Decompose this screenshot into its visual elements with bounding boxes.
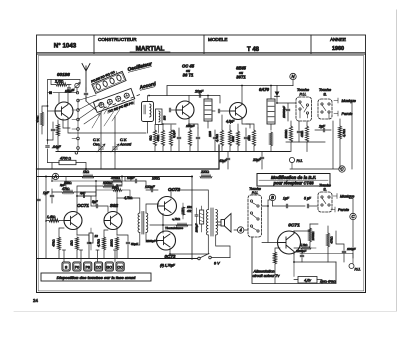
wire x96 riser	[95, 181, 97, 206]
cap 5uF frame rail	[37, 199, 41, 200]
mod bottom bus2	[293, 262, 295, 277]
svg-text:47kΩ: 47kΩ	[330, 236, 334, 244]
svg-text:10µF: 10µF	[127, 176, 136, 180]
bus terminal circle	[75, 152, 78, 155]
input terminal square	[49, 91, 52, 94]
input terminal circle	[76, 92, 78, 94]
svg-text:4,7kΩ: 4,7kΩ	[342, 128, 346, 137]
resistor bank2 r3	[246, 124, 256, 152]
cap bank1 c2	[196, 128, 200, 152]
cap bank2 c0	[213, 130, 217, 152]
detector resistor 47k	[305, 121, 308, 152]
svg-text:OC71: OC71	[77, 203, 89, 208]
cap 40uF bottom	[219, 152, 230, 170]
svg-text:P8: P8	[85, 266, 89, 270]
boxed resistor near transformer	[196, 206, 204, 232]
svg-text:40kΩ: 40kΩ	[156, 135, 160, 142]
svg-text:100000pF: 100000pF	[282, 106, 286, 118]
svg-text:4,7kΩ: 4,7kΩ	[97, 238, 101, 247]
detector bus	[286, 141, 325, 143]
center rail	[191, 177, 193, 260]
svg-text:100kΩ: 100kΩ	[311, 231, 315, 241]
modification title box	[257, 174, 330, 187]
driver transformer secondary	[146, 213, 148, 233]
switch Touche S (bottom)	[318, 192, 332, 212]
wire to node C	[290, 103, 352, 170]
svg-text:100µF: 100µF	[347, 247, 356, 251]
label Accord	[138, 81, 157, 91]
page edge shadow bottom	[14, 311, 396, 313]
svg-text:A: A	[53, 174, 57, 179]
svg-text:100µF: 100µF	[145, 185, 156, 189]
cap 50uF S92 bypass	[117, 235, 138, 259]
wire T1 base	[48, 110, 56, 112]
S92 collector wires	[117, 177, 122, 214]
input trimmer	[74, 83, 80, 93]
cap 1uF mod	[273, 197, 306, 208]
svg-text:8E45: 8E45	[236, 66, 246, 71]
cap on T3 base	[218, 109, 229, 113]
bottom bus mod	[252, 237, 336, 284]
caption box touches	[41, 273, 151, 281]
cap 10uF coupling	[125, 176, 146, 186]
svg-text:10kΩ: 10kΩ	[112, 186, 119, 190]
supply bus top	[167, 86, 293, 96]
resistor 220 S92 emitter	[110, 237, 119, 259]
driver transformer wires	[117, 198, 159, 245]
label Parole top	[334, 111, 352, 116]
driver transformer primary	[138, 213, 140, 233]
diode OA70 vertical	[275, 86, 280, 104]
OC71 emitter wire	[76, 228, 78, 236]
cap left of transformer	[195, 208, 198, 224]
left column junction dots	[47, 105, 49, 141]
detector cap 2200pF	[297, 121, 301, 142]
thermistance resistor	[165, 217, 188, 230]
wire T3 collector	[241, 86, 243, 105]
resistor 14k base OC71	[46, 215, 64, 222]
svg-text:+,7kΩ: +,7kΩ	[172, 217, 181, 221]
svg-text:P.U.: P.U.	[252, 191, 259, 195]
transistor OC72 lower	[157, 231, 176, 250]
cap on T2 base	[169, 108, 176, 112]
resistor bank2 r2	[228, 125, 231, 152]
OC71 collector wires	[77, 186, 96, 214]
output transformer secondary	[216, 210, 218, 236]
OC71 mod base wire	[262, 206, 278, 243]
svg-text:4,5v: 4,5v	[304, 279, 311, 283]
svg-text:1kΩ: 1kΩ	[83, 170, 90, 174]
IF transformer 1	[142, 96, 154, 134]
resistor bank1 r1	[156, 124, 176, 152]
page edge shadow right	[396, 10, 398, 311]
band switch contact column	[77, 99, 80, 149]
contact stems left	[72, 110, 77, 139]
svg-text:Modification de la B.F.: Modification de la B.F.	[271, 175, 316, 180]
svg-text:MARTIAL: MARTIAL	[136, 46, 165, 53]
transistor OC71 mod	[278, 231, 301, 254]
mixer bottom wire	[63, 119, 146, 152]
svg-text:2200µF: 2200µF	[145, 239, 156, 243]
svg-text:circuit auteur 7v: circuit auteur 7v	[253, 274, 281, 278]
svg-text:220Ω: 220Ω	[200, 170, 210, 174]
IF transformer 3	[267, 86, 275, 131]
svg-text:CO: CO	[96, 266, 102, 270]
resistor 4.7k S92	[97, 230, 109, 259]
resistor 100k mod	[308, 224, 318, 248]
svg-text:Accord: Accord	[119, 143, 132, 147]
cap 5uF mod	[304, 197, 318, 208]
svg-text:S.: S.	[323, 93, 327, 97]
svg-text:4700Ω: 4700Ω	[111, 176, 121, 180]
svg-text:(9) 1,70µF: (9) 1,70µF	[160, 264, 176, 268]
svg-text:00198: 00198	[57, 72, 70, 77]
svg-text:5 µF: 5 µF	[304, 197, 312, 201]
contact column wire	[77, 102, 79, 147]
svg-text:36T1: 36T1	[236, 75, 246, 80]
main bus lower A	[37, 145, 220, 169]
resistor 47k OC71 bias	[52, 228, 65, 259]
detector resistor 100k	[284, 121, 293, 152]
output transformer core	[211, 208, 213, 236]
cap 100uF driver	[145, 185, 158, 192]
svg-text:T 48: T 48	[247, 47, 260, 53]
resistor 47k mod out	[298, 243, 316, 249]
svg-text:CONSTRUCTEUR: CONSTRUCTEUR	[98, 37, 137, 42]
speaker	[221, 214, 231, 233]
header cell MODELE T 48	[208, 37, 260, 53]
input cap 100pF	[65, 85, 75, 93]
push button S	[62, 262, 70, 271]
svg-text:100k: 100k	[231, 135, 235, 141]
svg-text:4700 Ω: 4700 Ω	[60, 156, 71, 160]
svg-text:36 T1: 36 T1	[183, 73, 194, 78]
svg-text:1kΩ: 1kΩ	[247, 135, 251, 141]
mixer emitter resistor	[56, 120, 59, 152]
resistor 220 ohm on bus	[200, 170, 212, 178]
variable capacitor CV accord	[111, 116, 119, 169]
bottom supply bus	[37, 258, 198, 260]
IFT3 bottom resistor	[269, 132, 272, 152]
OC72 collector wires	[170, 190, 208, 254]
left column cap	[48, 122, 55, 140]
svg-text:1kΩ: 1kΩ	[70, 240, 74, 246]
cap coupling OC71-S92	[91, 196, 108, 212]
svg-text:1µF: 1µF	[43, 191, 50, 195]
svg-text:47kΩ: 47kΩ	[52, 239, 56, 247]
svg-text:Musique: Musique	[340, 195, 354, 199]
transformer bottom wire	[216, 235, 230, 258]
svg-text:20µF: 20µF	[252, 158, 262, 162]
label Oscillateur	[127, 61, 154, 73]
svg-text:2200: 2200	[208, 131, 212, 138]
resistor 1k on bus	[82, 170, 94, 178]
svg-text:47k: 47k	[187, 209, 192, 213]
svg-text:.04µF: .04µF	[52, 145, 62, 149]
output transformer primary	[206, 210, 208, 236]
cap bank2 c1	[244, 128, 248, 152]
transistor OC72 upper	[158, 197, 177, 216]
band fan wires 2	[92, 104, 120, 128]
OC72 emitter join	[150, 214, 192, 234]
label Alimentation	[253, 270, 281, 279]
push button P8	[84, 262, 92, 271]
volume pot 4.7k	[338, 119, 346, 169]
cap 100uF mod	[336, 231, 356, 262]
svg-text:40µF: 40µF	[219, 159, 228, 163]
svg-text:OC72: OC72	[168, 187, 180, 192]
left rail wire	[47, 102, 49, 163]
left column resistor 47k	[36, 106, 48, 134]
OC71 mod collector wires	[294, 224, 336, 262]
cap 2uF preamp	[77, 191, 90, 198]
resistor 100k horizontal	[96, 181, 122, 188]
svg-text:OC: OC	[117, 266, 123, 270]
resistor 10k mod	[326, 226, 333, 262]
IF transformer 2	[204, 96, 215, 129]
svg-text:2,7kΩ: 2,7kΩ	[54, 80, 64, 84]
variable capacitor CV osc	[97, 112, 105, 169]
cap 20uF supply	[194, 90, 204, 98]
svg-text:9kΩ: 9kΩ	[149, 135, 153, 140]
label Touche S	[319, 88, 331, 97]
svg-text:47kΩ: 47kΩ	[62, 187, 70, 191]
svg-text:1960: 1960	[332, 46, 344, 52]
wire T1 leads up	[59, 93, 68, 104]
label Musique bottom	[333, 194, 354, 199]
svg-text:0C71: 0C71	[288, 223, 300, 229]
svg-text:S.: S.	[323, 188, 326, 192]
band tick marks 2	[104, 95, 140, 108]
cap 1uF left	[43, 189, 54, 203]
svg-text:20µF: 20µF	[194, 90, 204, 94]
ground bus upper	[56, 151, 290, 153]
antenna series cap	[84, 93, 88, 101]
wire mod out bus	[300, 253, 353, 255]
svg-text:Touche: Touche	[297, 88, 309, 92]
svg-text:150pF: 150pF	[186, 124, 195, 128]
resistor bank1 r3	[188, 128, 191, 152]
antenna	[82, 64, 90, 93]
header cell ANNEE 1960	[330, 37, 346, 52]
schematic outer frame	[37, 54, 366, 293]
resistor 4700 on y181	[112, 180, 122, 183]
cap 2200pF mod	[294, 248, 306, 262]
left rail bottom	[45, 177, 47, 259]
svg-text:24: 24	[33, 298, 38, 303]
svg-text:0A70: 0A70	[259, 87, 270, 92]
svg-text:Osc.: Osc.	[93, 143, 100, 147]
push button CO	[94, 262, 102, 271]
svg-text:12: 12	[95, 234, 99, 238]
svg-text:1000µF: 1000µF	[196, 223, 199, 232]
svg-text:Parole: Parole	[338, 208, 349, 212]
push button GO	[105, 262, 113, 271]
svg-text:Alimentation: Alimentation	[253, 270, 275, 274]
svg-text:10Ω: 10Ω	[187, 205, 192, 209]
battery 4.5V box	[294, 277, 322, 284]
svg-text:4,7kΩ: 4,7kΩ	[300, 243, 307, 247]
cap 2uF volume	[315, 125, 331, 132]
svg-text:OC 45: OC 45	[182, 64, 195, 69]
svg-text:GO: GO	[107, 266, 113, 270]
svg-text:47kΩ: 47kΩ	[36, 116, 40, 123]
label OC 45 ou 36T1	[182, 64, 195, 78]
label Parole bottom	[331, 207, 349, 212]
label Touche PU bottom	[249, 187, 261, 195]
svg-text:P.U.: P.U.	[300, 93, 307, 97]
svg-text:N° 1043: N° 1043	[54, 43, 77, 50]
label C.V. Osc.	[93, 138, 100, 147]
oscillator coil	[156, 109, 167, 133]
svg-text:100kΩ: 100kΩ	[103, 181, 113, 185]
wire T2 emitter	[189, 117, 198, 129]
resistor bank1 r2	[169, 125, 172, 152]
svg-text:120Ω 470kΩ: 120Ω 470kΩ	[320, 279, 336, 283]
resistor 47k horizontal	[52, 186, 96, 196]
header cell CONSTRUCTEUR MARTIAL	[98, 37, 170, 53]
node A	[52, 173, 58, 179]
wire T3 emitter	[242, 118, 250, 129]
svg-text:300: 300	[163, 115, 167, 120]
svg-text:4,5µF: 4,5µF	[226, 120, 235, 124]
svg-text:100Ω: 100Ω	[152, 177, 160, 181]
resistor 10 ohm OC72	[181, 203, 191, 219]
label Touche S bottom	[319, 184, 331, 192]
node C bottom	[350, 199, 356, 259]
supply inner wire	[149, 96, 220, 104]
main bus lower B	[37, 176, 193, 178]
capacitor .04uF	[46, 145, 62, 149]
svg-text:P0: P0	[75, 266, 79, 270]
label C.V. Accord	[119, 138, 132, 147]
transistor S92	[104, 212, 122, 230]
cap 20uF bottom	[252, 152, 264, 170]
transistor T1 mixer	[55, 102, 73, 120]
resistor bank2 r2b	[236, 124, 239, 152]
svg-text:MODELE: MODELE	[208, 37, 227, 42]
svg-text:Musique: Musique	[342, 99, 356, 103]
key stub wires	[63, 250, 117, 262]
wire T1 collector down	[68, 118, 70, 134]
node 4 left	[238, 227, 244, 233]
S92 emitter wire	[116, 228, 118, 236]
node B	[262, 194, 276, 206]
svg-text:C.V.: C.V.	[93, 138, 100, 142]
cap bank1 c1	[172, 128, 181, 152]
wire T2 collector	[188, 96, 190, 104]
resistor bank2 r1	[215, 115, 224, 152]
switch Touche PU (top)	[296, 97, 312, 121]
resistor 1k OC71 emitter	[70, 237, 79, 259]
svg-text:B: B	[271, 195, 274, 200]
node PU out	[289, 157, 302, 168]
resistor 2.7k input	[51, 80, 71, 87]
svg-text:P.U.: P.U.	[355, 268, 361, 272]
svg-text:pour récepteur CT46: pour récepteur CT46	[272, 180, 314, 185]
transistor T2 IF1	[176, 101, 194, 119]
node C top	[339, 166, 345, 172]
coil bank Accord (diagonal)	[93, 88, 136, 117]
svg-text:220Ω: 220Ω	[110, 239, 114, 248]
svg-text:50µF: 50µF	[131, 242, 138, 246]
wire 4700 to rails	[48, 163, 87, 170]
input filter box wires	[48, 80, 81, 103]
driver transformer core	[142, 212, 144, 235]
node PU bottom	[349, 254, 361, 272]
push button P0	[73, 262, 81, 271]
header table frame	[37, 35, 366, 54]
svg-text:C.V.: C.V.	[120, 138, 127, 142]
on-off switch	[198, 254, 230, 266]
detector cap 100000pF	[277, 103, 296, 121]
svg-text:P.U.: P.U.	[297, 159, 303, 163]
svg-text:Disposition des touches sur la: Disposition des touches sur la face avan…	[57, 275, 136, 280]
svg-text:2200pF: 2200pF	[295, 249, 306, 253]
coil bank Oscillateur (diagonal)	[90, 67, 126, 93]
svg-text:0,1µF: 0,1µF	[172, 130, 176, 138]
label 8E45 ou 36T1	[236, 66, 246, 80]
resistor 4700 ohm	[59, 156, 76, 164]
cap 50uF OC71 bypass	[77, 235, 91, 259]
band stems down	[99, 101, 134, 117]
svg-text:Thermistance: Thermistance	[165, 226, 184, 230]
svg-text:2µF: 2µF	[79, 191, 85, 195]
resistor 9k IF1 base	[149, 125, 157, 152]
svg-text:ANNEE: ANNEE	[330, 37, 346, 42]
transistor OC71	[64, 212, 82, 230]
svg-text:2µF: 2µF	[318, 125, 326, 129]
svg-text:100kΩ: 100kΩ	[284, 129, 288, 139]
node 4 wire into switch	[244, 228, 248, 230]
svg-text:Parole: Parole	[342, 112, 353, 116]
node N	[290, 73, 296, 85]
label Musique top	[334, 98, 356, 103]
transistor T3 IF2	[230, 103, 247, 120]
band fan wires	[78, 88, 102, 125]
push button OC	[116, 262, 124, 271]
switch Touche S (top)	[318, 99, 332, 119]
svg-text:47kΩ: 47kΩ	[300, 131, 304, 137]
switch Touche PU (bottom)	[248, 195, 262, 237]
label Touche P.U.	[297, 88, 309, 97]
wire y181 feed	[52, 177, 125, 182]
antenna wire to band	[86, 96, 97, 111]
resistor emitter mod	[273, 248, 280, 284]
svg-text:9 V: 9 V	[214, 262, 220, 266]
svg-text:1µF: 1µF	[283, 197, 290, 201]
resistor 12 box	[89, 228, 98, 250]
cap 2uF at node A	[59, 176, 122, 188]
svg-text:Touche: Touche	[319, 88, 331, 92]
resistor 10k y190	[96, 186, 130, 197]
svg-text:1,4kΩ: 1,4kΩ	[47, 215, 56, 219]
speaker wires	[218, 222, 238, 230]
